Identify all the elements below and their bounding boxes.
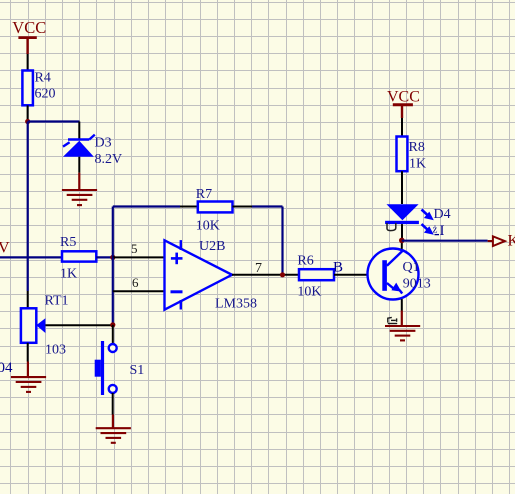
svg-text:5: 5 [131,241,138,256]
svg-text:1K: 1K [60,267,77,282]
switch S1 [95,325,117,428]
wire RT1 top pin [27,291,29,308]
svg-text:D4: D4 [434,207,451,222]
svg-text:620: 620 [35,87,56,102]
op-amp U2B [165,240,233,310]
junction node A [25,119,30,124]
svg-text:VCC: VCC [387,89,420,106]
svg-text:8.2V: 8.2V [95,152,123,167]
junction node (wiper/S1) [110,322,115,327]
resistor R4 [22,71,33,122]
wire left rail node A down [27,122,29,292]
transistor Q1 [368,240,419,326]
svg-text:5V: 5V [0,240,10,257]
svg-text:R4: R4 [35,71,51,86]
ground (below D3) [62,190,97,205]
svg-text:U2B: U2B [199,239,225,254]
junction collector node [399,238,405,244]
wire op-amp pin 6 [113,290,165,292]
wire op-amp output pin 7 [232,274,299,276]
wire collector node to port K [402,240,488,242]
svg-text:S1: S1 [130,363,145,378]
wire VCC to R4 [27,54,29,71]
zener diode D3 [63,122,95,190]
ground (below RT1) [11,377,46,392]
tiny glyph U near D4 cathode [387,223,396,231]
wire feedback drop [281,207,283,275]
svg-text:K: K [508,233,515,250]
junction node B1 (pin5/R5/feedback) [110,255,115,260]
svg-text:6: 6 [132,275,139,290]
svg-text:10K: 10K [196,219,220,234]
ground (below S1) [96,428,131,443]
svg-text:I: I [440,223,445,239]
svg-text:VCC: VCC [12,18,46,37]
wire feedback top left [113,205,180,207]
wire VCC to R8 [401,118,403,137]
svg-text:D3: D3 [95,136,112,151]
resistor R8 [397,137,408,205]
resistor R6 [299,269,381,280]
wire op-amp pin 5 [113,256,165,258]
svg-text:R6: R6 [297,254,313,269]
svg-text:R8: R8 [409,140,425,155]
svg-text:104: 104 [0,360,13,376]
wire feedback top right [252,205,283,207]
LED D4 [385,204,434,240]
wire R7 left pin [180,206,198,208]
power VCC (right) [387,89,420,119]
wire node A to D3 [28,120,80,122]
svg-text:10K: 10K [297,285,321,300]
svg-text:1K: 1K [409,157,426,172]
wire RT1 wiper to node [45,324,112,326]
thermistor RT1 [21,308,46,377]
svg-text:Q1: Q1 [403,260,420,275]
resistor R7 [198,202,233,213]
port K [488,233,515,250]
svg-text:R5: R5 [60,235,76,250]
svg-text:B: B [333,259,343,275]
svg-text:RT1: RT1 [45,294,69,309]
wire feedback riser [112,207,114,258]
svg-text:103: 103 [45,343,66,358]
junction output node [280,272,285,277]
resistor R5 [62,251,113,261]
svg-text:9013: 9013 [403,277,431,292]
wire pin6 riser [112,257,114,324]
svg-text:LM358: LM358 [215,297,257,312]
tiny glyph near Q1 ground [388,317,397,323]
wire left edge to R5 [0,256,62,258]
svg-text:7: 7 [255,261,262,276]
power VCC (left) [12,18,46,54]
ground (below Q1) [385,326,420,340]
svg-text:ż: ż [433,224,438,236]
svg-text:R7: R7 [196,187,212,202]
wire R7 right pin [233,206,253,208]
